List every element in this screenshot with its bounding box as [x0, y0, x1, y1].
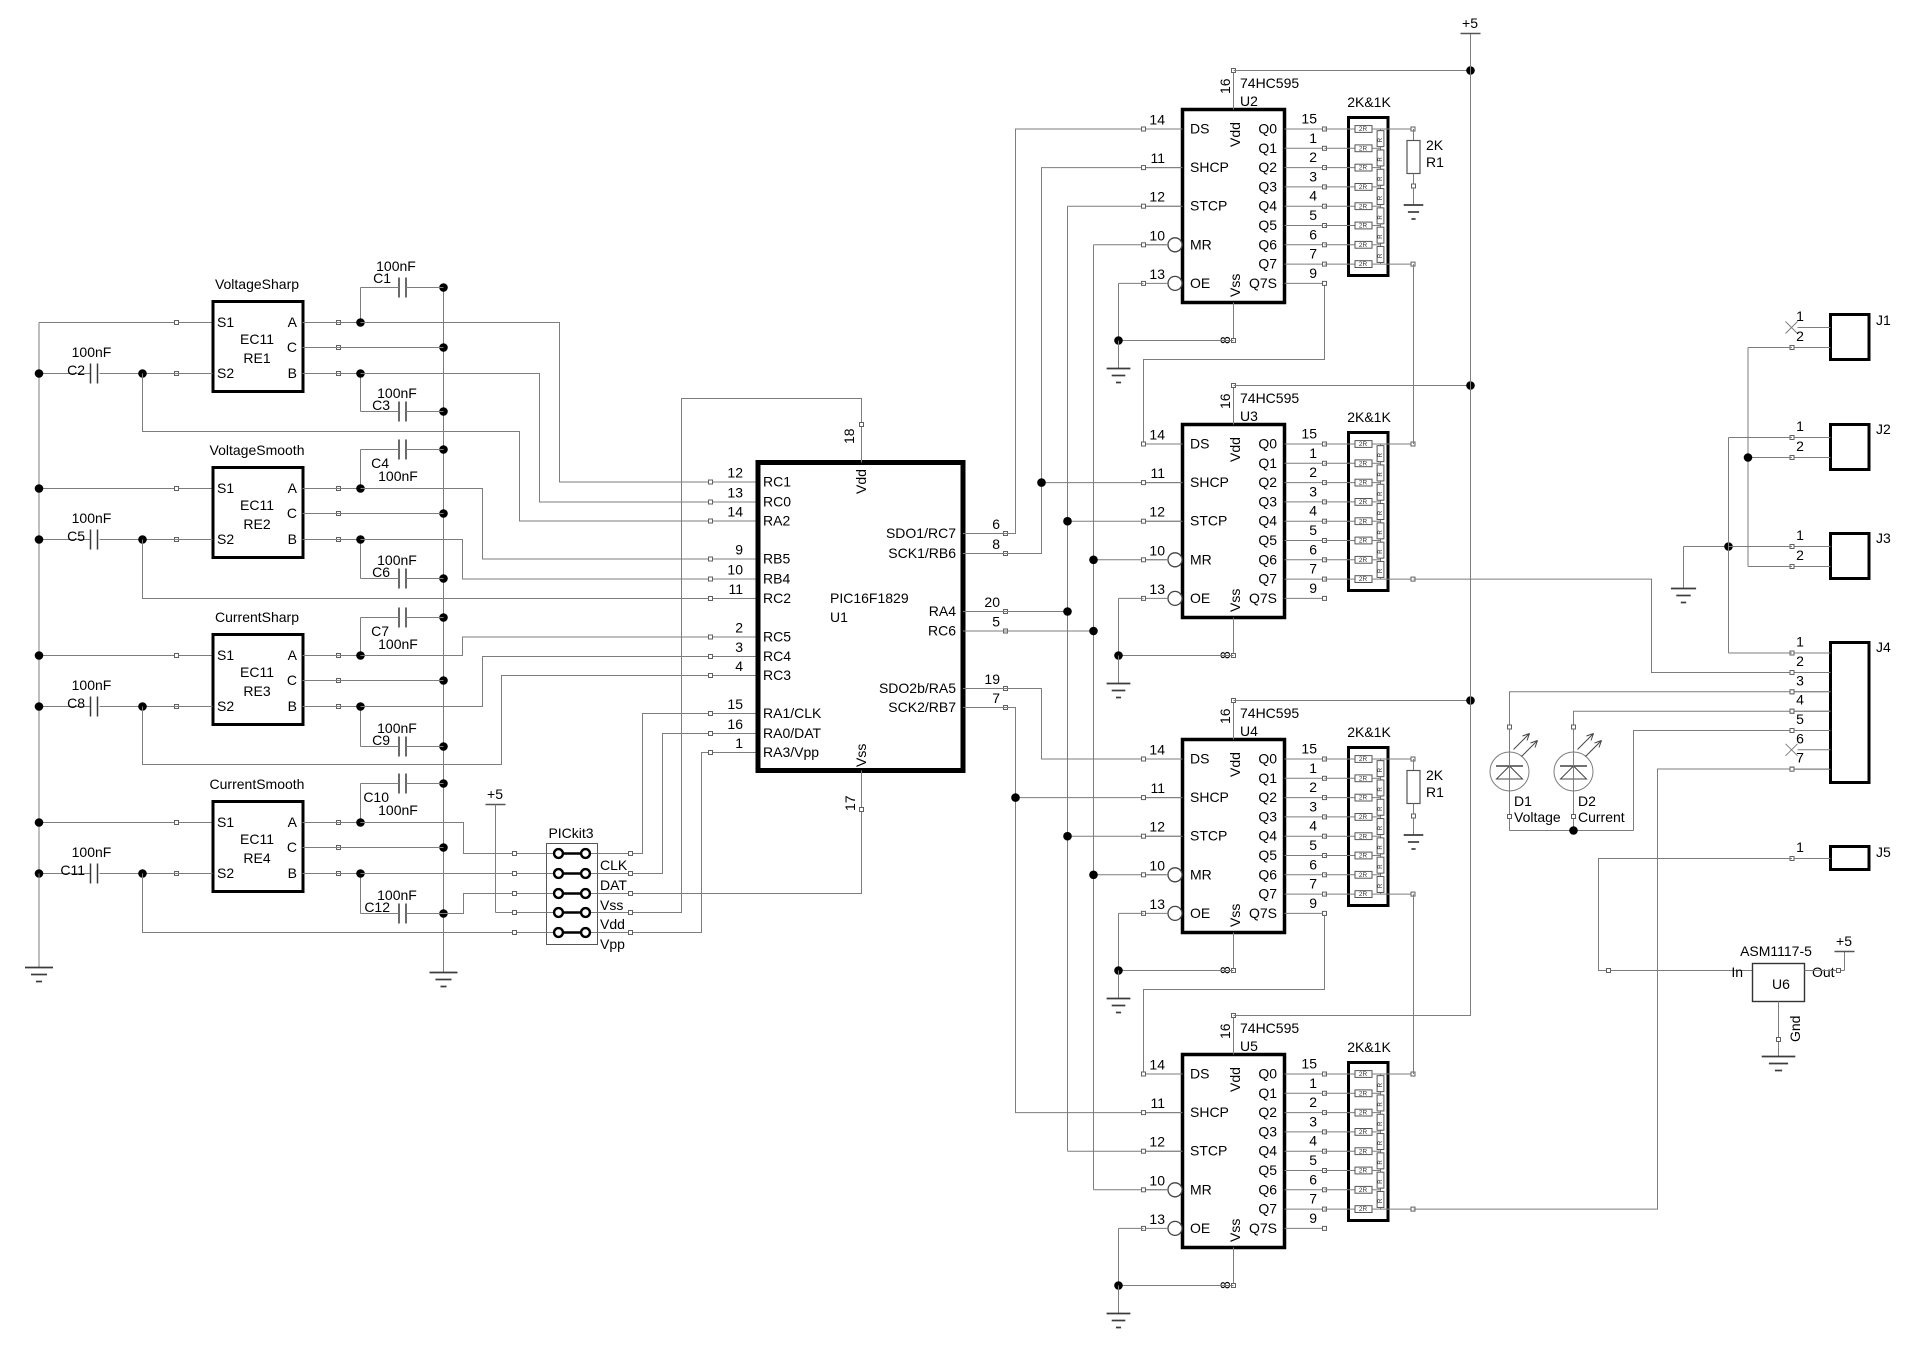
pin 18 Vdd stub — [861, 425, 863, 463]
svg-text:C5: C5 — [67, 528, 85, 544]
wire RE1 B to RC0 — [303, 369, 758, 502]
svg-text:MR: MR — [1190, 236, 1212, 252]
svg-text:Q6: Q6 — [1258, 551, 1277, 567]
svg-text:Q0: Q0 — [1258, 751, 1277, 767]
svg-text:6: 6 — [992, 516, 1000, 532]
svg-text:ASM1117-5: ASM1117-5 — [1740, 943, 1812, 959]
wire U5 OE and Vss to ground — [1114, 1228, 1233, 1313]
svg-text:2R: 2R — [1359, 576, 1368, 583]
svg-text:2R: 2R — [1359, 833, 1368, 840]
svg-text:Q0: Q0 — [1258, 436, 1277, 452]
U3 pin 8 Vss stub — [1233, 618, 1235, 656]
svg-text:SDO1/RC7: SDO1/RC7 — [886, 525, 956, 541]
svg-text:15: 15 — [1301, 1056, 1317, 1072]
wire DAC2 output U5 ladder to J4 pin 7 — [1414, 767, 1831, 1209]
svg-text:2R: 2R — [1359, 441, 1368, 448]
svg-text:CLK: CLK — [600, 857, 628, 873]
connector J4 — [1786, 634, 1892, 783]
svg-text:U3: U3 — [1240, 408, 1258, 424]
svg-text:+5: +5 — [1462, 15, 1478, 31]
svg-text:Q7: Q7 — [1258, 1201, 1277, 1217]
svg-text:16: 16 — [1217, 393, 1233, 409]
svg-text:Q2: Q2 — [1258, 789, 1277, 805]
svg-text:2R: 2R — [1359, 1187, 1368, 1194]
svg-text:2R: 2R — [1359, 480, 1368, 487]
wire RE2 B to RB4 — [303, 535, 758, 579]
svg-text:2K&1K: 2K&1K — [1347, 409, 1391, 425]
svg-text:2R: 2R — [1359, 242, 1368, 249]
svg-text:Q3: Q3 — [1258, 493, 1277, 509]
svg-text:2R: 2R — [1359, 557, 1368, 564]
svg-text:Q1: Q1 — [1258, 455, 1277, 471]
LED D2 Current — [1554, 734, 1625, 826]
capacitor C10 100nF — [361, 774, 444, 823]
svg-text:13: 13 — [1149, 266, 1165, 282]
svg-text:2K&1K: 2K&1K — [1347, 94, 1391, 110]
shift register U4 74HC595 — [1142, 699, 1327, 975]
svg-text:R: R — [1377, 195, 1384, 200]
svg-text:2R: 2R — [1359, 499, 1368, 506]
svg-text:R: R — [1377, 491, 1384, 496]
svg-text:J4: J4 — [1876, 639, 1891, 655]
svg-text:R: R — [1377, 530, 1384, 535]
svg-text:S1: S1 — [217, 480, 234, 496]
svg-text:13: 13 — [1149, 896, 1165, 912]
wire RE1 A to RC1 — [303, 318, 758, 482]
connector J5 — [1790, 839, 1891, 870]
svg-text:1: 1 — [1796, 839, 1804, 855]
U3 pin 16 Vdd stub — [1233, 386, 1235, 425]
svg-text:2R: 2R — [1359, 1148, 1368, 1155]
svg-text:SHCP: SHCP — [1190, 789, 1229, 805]
resistor R1 2K (U2) — [1407, 129, 1444, 205]
svg-text:Q1: Q1 — [1258, 1085, 1277, 1101]
svg-text:R: R — [1377, 1198, 1384, 1203]
wire U3 OE and Vss to ground — [1114, 598, 1233, 683]
svg-text:OE: OE — [1190, 1220, 1210, 1236]
ground J2 J3 J4 pin1 net — [1671, 547, 1696, 603]
resistor network U2 ladder 2K&1K — [1325, 94, 1392, 276]
svg-text:20: 20 — [984, 594, 1000, 610]
J4 pin 6 no-connect — [1798, 749, 1831, 751]
svg-text:18: 18 — [841, 428, 857, 444]
svg-text:2R: 2R — [1359, 795, 1368, 802]
svg-text:R: R — [1377, 1160, 1384, 1165]
svg-text:16: 16 — [1217, 78, 1233, 94]
wire U4 OE and Vss to ground — [1114, 913, 1233, 998]
svg-text:12: 12 — [727, 465, 743, 481]
svg-text:1: 1 — [1796, 418, 1804, 434]
svg-text:Vpp: Vpp — [600, 936, 625, 952]
svg-text:4: 4 — [1796, 692, 1804, 708]
svg-text:3: 3 — [1309, 798, 1317, 814]
resistor network U5 ladder 2K&1K — [1325, 1039, 1392, 1221]
svg-text:C11: C11 — [60, 862, 85, 878]
svg-text:STCP: STCP — [1190, 198, 1227, 214]
svg-text:Q7S: Q7S — [1249, 275, 1277, 291]
wire PIC Vss pin 17 to PICkit3 Vss and ground bus — [444, 810, 862, 914]
wire RE3 B to RC4 — [303, 657, 758, 711]
wire U2 Vdd to +5 rail — [1234, 66, 1475, 75]
svg-text:10: 10 — [1149, 857, 1165, 873]
wire J1.2 J2.2 J3.2 net — [1744, 348, 1792, 567]
svg-text:9: 9 — [1309, 1210, 1317, 1226]
wire U4 Q7S to U5 DS — [1144, 913, 1325, 1074]
wire D2 anode to J4 pin 4 — [1572, 709, 1831, 752]
rotary encoder RE4 CurrentSmooth — [175, 776, 341, 892]
wire RE4 B to PICkit3 DAT and RA0/DAT — [303, 734, 758, 878]
svg-text:4: 4 — [1309, 1133, 1317, 1149]
J4 pin 7 — [1792, 768, 1831, 770]
svg-text:RE3: RE3 — [243, 683, 270, 699]
svg-text:7: 7 — [1309, 561, 1317, 577]
svg-text:PICkit3: PICkit3 — [548, 825, 593, 841]
svg-text:R: R — [1377, 845, 1384, 850]
svg-text:Vss: Vss — [1227, 274, 1243, 297]
svg-text:2R: 2R — [1359, 145, 1368, 152]
svg-text:EC11: EC11 — [240, 331, 274, 347]
svg-text:VoltageSmooth: VoltageSmooth — [210, 442, 305, 458]
svg-text:RC2: RC2 — [763, 590, 791, 606]
svg-text:A: A — [288, 480, 298, 496]
svg-text:5: 5 — [1309, 837, 1317, 853]
U2 pin 16 Vdd stub — [1233, 71, 1235, 110]
svg-text:CurrentSharp: CurrentSharp — [215, 609, 299, 625]
svg-text:8: 8 — [992, 536, 1000, 552]
svg-text:16: 16 — [1217, 708, 1233, 724]
wire ground to J2.1 J3.1 J4.1 — [1684, 438, 1793, 654]
svg-text:Q5: Q5 — [1258, 1162, 1277, 1178]
svg-text:2R: 2R — [1359, 261, 1368, 268]
voltage regulator U6 ASM1117-5 — [1731, 943, 1834, 1042]
svg-text:EC11: EC11 — [240, 664, 274, 680]
J2 pin 1 — [1792, 437, 1831, 439]
svg-text:10: 10 — [1149, 1172, 1165, 1188]
svg-text:R: R — [1377, 1082, 1384, 1087]
svg-text:SHCP: SHCP — [1190, 474, 1229, 490]
capacitor C4 100nF — [361, 440, 444, 489]
svg-text:RA2: RA2 — [763, 513, 790, 529]
svg-text:S2: S2 — [217, 365, 234, 381]
wire DAC1 output U3 ladder to J4 pin 2 — [1414, 579, 1831, 674]
wire RA4 pin 20 to STCP of U2 U3 U4 U5 — [963, 206, 1183, 1151]
svg-text:J1: J1 — [1876, 312, 1891, 328]
wire RE1 S2 to RA2 — [143, 374, 758, 522]
J5 pin 1 — [1792, 858, 1831, 860]
svg-text:R: R — [1377, 864, 1384, 869]
svg-text:14: 14 — [1149, 742, 1165, 758]
svg-text:11: 11 — [1150, 150, 1165, 166]
connector PICkit3 — [547, 825, 628, 952]
svg-text:MR: MR — [1190, 866, 1212, 882]
svg-text:2R: 2R — [1359, 165, 1368, 172]
U2 pin 8 Vss stub — [1233, 303, 1235, 341]
svg-text:74HC595: 74HC595 — [1240, 390, 1299, 406]
svg-text:2R: 2R — [1359, 872, 1368, 879]
svg-text:C3: C3 — [372, 397, 390, 413]
svg-text:10: 10 — [1149, 227, 1165, 243]
svg-text:12: 12 — [1149, 189, 1165, 205]
svg-text:2R: 2R — [1359, 184, 1368, 191]
wire SDO2b/RA5 pin 19 to U4 DS — [963, 689, 1183, 760]
capacitor C11 100nF — [60, 844, 212, 884]
svg-text:2: 2 — [1796, 547, 1804, 563]
U5 pin 16 Vdd stub — [1233, 1016, 1235, 1055]
svg-text:SCK1/RB6: SCK1/RB6 — [888, 545, 956, 561]
svg-text:Q1: Q1 — [1258, 140, 1277, 156]
svg-text:Vss: Vss — [853, 744, 869, 767]
svg-text:6: 6 — [1309, 226, 1317, 242]
svg-text:C: C — [287, 839, 297, 855]
svg-text:2R: 2R — [1359, 756, 1368, 763]
svg-text:2R: 2R — [1359, 891, 1368, 898]
ground left bus — [25, 874, 53, 982]
svg-text:Q1: Q1 — [1258, 770, 1277, 786]
U4 pin 16 Vdd stub — [1233, 701, 1235, 740]
wire +5 to PICkit3 Vdd and PIC Vdd pin 18 — [496, 399, 862, 915]
svg-text:6: 6 — [1309, 856, 1317, 872]
svg-text:MR: MR — [1190, 1181, 1212, 1197]
svg-text:15: 15 — [1301, 426, 1317, 442]
svg-text:14: 14 — [1149, 427, 1165, 443]
svg-text:2R: 2R — [1359, 775, 1368, 782]
svg-text:Q4: Q4 — [1258, 828, 1277, 844]
ground U6 — [1762, 1057, 1796, 1071]
wire J5 pin 1 to U6 In — [1599, 859, 1793, 973]
power +5 PICkit3 — [486, 786, 506, 805]
svg-text:11: 11 — [1150, 465, 1165, 481]
capacitor C8 100nF — [67, 677, 212, 717]
svg-text:1: 1 — [1309, 445, 1317, 461]
svg-text:Q0: Q0 — [1258, 1066, 1277, 1082]
svg-text:J5: J5 — [1876, 844, 1891, 860]
svg-text:B: B — [288, 365, 297, 381]
svg-text:74HC595: 74HC595 — [1240, 705, 1299, 721]
svg-text:74HC595: 74HC595 — [1240, 1020, 1299, 1036]
svg-text:17: 17 — [842, 795, 858, 811]
shift register U2 74HC595 — [1142, 69, 1327, 345]
wire RE4 S2 to PICkit3 Vpp and RA3/Vpp — [143, 753, 758, 935]
svg-text:STCP: STCP — [1190, 513, 1227, 529]
svg-text:U5: U5 — [1240, 1038, 1258, 1054]
svg-text:RC6: RC6 — [928, 623, 956, 639]
power +5 rail top — [1461, 15, 1481, 34]
svg-text:Q7S: Q7S — [1249, 905, 1277, 921]
svg-text:A: A — [288, 814, 298, 830]
svg-text:R: R — [1377, 253, 1384, 258]
capacitor C2 100nF — [67, 344, 212, 384]
svg-text:2R: 2R — [1359, 223, 1368, 230]
svg-text:RC4: RC4 — [763, 648, 791, 664]
svg-text:SDO2b/RA5: SDO2b/RA5 — [879, 680, 956, 696]
J3 pin 2 — [1792, 566, 1831, 568]
svg-text:DS: DS — [1190, 1066, 1209, 1082]
svg-text:U1: U1 — [830, 609, 848, 625]
svg-text:2R: 2R — [1359, 814, 1368, 821]
wire U5 ladder bottom output — [1381, 1207, 1416, 1211]
J4 pin 2 — [1792, 672, 1831, 674]
wire RE4 pin C to ground bus — [303, 847, 444, 849]
capacitor C1 100nF — [361, 258, 444, 323]
svg-text:2R: 2R — [1359, 1206, 1368, 1213]
svg-text:PIC16F1829: PIC16F1829 — [830, 590, 909, 606]
svg-text:2R: 2R — [1359, 126, 1368, 133]
wire LED cathodes to J4 pin 5 — [1508, 729, 1831, 835]
svg-text:R: R — [1377, 825, 1384, 830]
svg-text:3: 3 — [1309, 483, 1317, 499]
wire U5 ladder top output — [1381, 1072, 1416, 1076]
capacitor C6 100nF — [361, 540, 444, 589]
U4 pin 8 Vss stub — [1233, 933, 1235, 971]
svg-text:R: R — [1377, 472, 1384, 477]
svg-text:13: 13 — [727, 485, 743, 501]
J4 pin 3 — [1792, 691, 1831, 693]
ground R1 (U2) — [1404, 205, 1424, 219]
svg-text:12: 12 — [1149, 819, 1165, 835]
svg-text:R: R — [1377, 1102, 1384, 1107]
svg-text:R: R — [1377, 215, 1384, 220]
wire U2 Q7S to U3 DS — [1144, 283, 1325, 444]
svg-text:100nF: 100nF — [72, 677, 112, 693]
svg-text:2: 2 — [1309, 779, 1317, 795]
svg-text:7: 7 — [1309, 876, 1317, 892]
svg-text:Q2: Q2 — [1258, 1104, 1277, 1120]
svg-text:Vss: Vss — [1227, 1219, 1243, 1242]
svg-text:74HC595: 74HC595 — [1240, 75, 1299, 91]
svg-text:S1: S1 — [217, 647, 234, 663]
J2 pin 2 — [1792, 457, 1831, 459]
svg-text:R1: R1 — [1426, 784, 1444, 800]
wire D1 anode to J4 pin 3 — [1508, 690, 1831, 753]
svg-text:1: 1 — [1309, 130, 1317, 146]
wire RC6 pin 5 to MR of U2 U3 U4 U5 — [963, 245, 1167, 1190]
svg-text:Out: Out — [1812, 964, 1835, 980]
wire center ground bus — [439, 283, 448, 972]
svg-text:DS: DS — [1190, 751, 1209, 767]
svg-text:2K&1K: 2K&1K — [1347, 1039, 1391, 1055]
wire U6 Gnd to ground — [1777, 1002, 1781, 1057]
svg-text:C: C — [287, 339, 297, 355]
power +5 U6 output — [1835, 933, 1855, 952]
svg-text:J3: J3 — [1876, 530, 1891, 546]
wire U6 Out to +5 — [1805, 952, 1845, 973]
svg-text:1: 1 — [1796, 634, 1804, 650]
svg-text:C2: C2 — [67, 362, 85, 378]
connector J1 — [1786, 308, 1892, 360]
svg-text:RA3/Vpp: RA3/Vpp — [763, 744, 819, 760]
svg-text:Q4: Q4 — [1258, 1143, 1277, 1159]
svg-text:A: A — [288, 314, 298, 330]
svg-text:Q5: Q5 — [1258, 217, 1277, 233]
svg-text:2R: 2R — [1359, 460, 1368, 467]
capacitor C3 100nF — [361, 374, 444, 422]
svg-text:5: 5 — [1309, 522, 1317, 538]
svg-text:3: 3 — [735, 639, 743, 655]
wire RE1 pin C to ground bus — [303, 347, 444, 349]
svg-text:U6: U6 — [1772, 976, 1790, 992]
svg-text:6: 6 — [1796, 730, 1804, 746]
svg-text:Q7S: Q7S — [1249, 1220, 1277, 1236]
svg-text:2R: 2R — [1359, 518, 1368, 525]
ground U2 — [1107, 369, 1131, 383]
svg-text:Vdd: Vdd — [600, 916, 625, 932]
svg-text:R: R — [1377, 1140, 1384, 1145]
svg-text:Q7: Q7 — [1258, 256, 1277, 272]
svg-text:Vdd: Vdd — [853, 469, 869, 494]
svg-text:5: 5 — [1796, 711, 1804, 727]
wire U3 ladder bottom output — [1381, 577, 1416, 581]
svg-text:6: 6 — [1309, 541, 1317, 557]
wire U4 Vdd to +5 rail — [1234, 696, 1475, 705]
svg-text:R: R — [1377, 1179, 1384, 1184]
svg-text:SCK2/RB7: SCK2/RB7 — [888, 699, 956, 715]
svg-text:STCP: STCP — [1190, 1143, 1227, 1159]
svg-text:RB4: RB4 — [763, 571, 790, 587]
svg-text:Vss: Vss — [1227, 904, 1243, 927]
resistor network U3 ladder 2K&1K — [1325, 409, 1392, 591]
svg-text:B: B — [288, 531, 297, 547]
svg-text:Q3: Q3 — [1258, 178, 1277, 194]
svg-text:Q2: Q2 — [1258, 159, 1277, 175]
svg-text:1: 1 — [1796, 308, 1804, 324]
svg-text:2: 2 — [1309, 464, 1317, 480]
svg-text:VoltageSharp: VoltageSharp — [215, 276, 299, 292]
svg-text:7: 7 — [992, 690, 1000, 706]
J4 pin 4 — [1792, 710, 1831, 712]
svg-text:RC1: RC1 — [763, 474, 791, 490]
svg-text:2R: 2R — [1359, 1110, 1368, 1117]
svg-text:12: 12 — [1149, 1134, 1165, 1150]
resistor R1 2K (U4) — [1407, 759, 1444, 835]
svg-text:SHCP: SHCP — [1190, 1104, 1229, 1120]
svg-text:Q3: Q3 — [1258, 1123, 1277, 1139]
svg-text:B: B — [288, 698, 297, 714]
svg-text:RE2: RE2 — [243, 516, 270, 532]
svg-text:Q0: Q0 — [1258, 121, 1277, 137]
svg-text:2: 2 — [735, 620, 743, 636]
shift register U5 74HC595 — [1142, 1014, 1327, 1290]
svg-text:100nF: 100nF — [72, 510, 112, 526]
J1 pin 1 no-connect — [1798, 327, 1831, 329]
svg-text:5: 5 — [1309, 1152, 1317, 1168]
svg-text:2: 2 — [1309, 149, 1317, 165]
svg-text:R: R — [1377, 137, 1384, 142]
svg-text:OE: OE — [1190, 275, 1210, 291]
wire U4 ladder bottom output — [1381, 892, 1416, 896]
svg-text:C9: C9 — [372, 732, 390, 748]
svg-text:S2: S2 — [217, 531, 234, 547]
svg-text:C6: C6 — [372, 564, 390, 580]
svg-text:11: 11 — [1150, 780, 1165, 796]
svg-text:S1: S1 — [217, 314, 234, 330]
svg-text:100nF: 100nF — [378, 802, 418, 818]
svg-text:2R: 2R — [1359, 538, 1368, 545]
svg-text:R: R — [1377, 234, 1384, 239]
wire SCK2/RB7 pin 7 to U4 U5 SHCP — [963, 708, 1183, 1113]
svg-text:Current: Current — [1578, 809, 1625, 825]
svg-text:19: 19 — [984, 671, 1000, 687]
svg-text:R: R — [1377, 568, 1384, 573]
svg-text:RC0: RC0 — [763, 494, 791, 510]
ground U3 — [1107, 684, 1131, 698]
connector J2 — [1790, 418, 1891, 470]
svg-text:16: 16 — [727, 716, 743, 732]
svg-text:+5: +5 — [487, 786, 503, 802]
svg-text:1: 1 — [735, 735, 743, 751]
wire RE3 A to RC5 — [303, 637, 758, 660]
svg-text:1: 1 — [1309, 1075, 1317, 1091]
svg-text:Gnd: Gnd — [1787, 1016, 1803, 1042]
